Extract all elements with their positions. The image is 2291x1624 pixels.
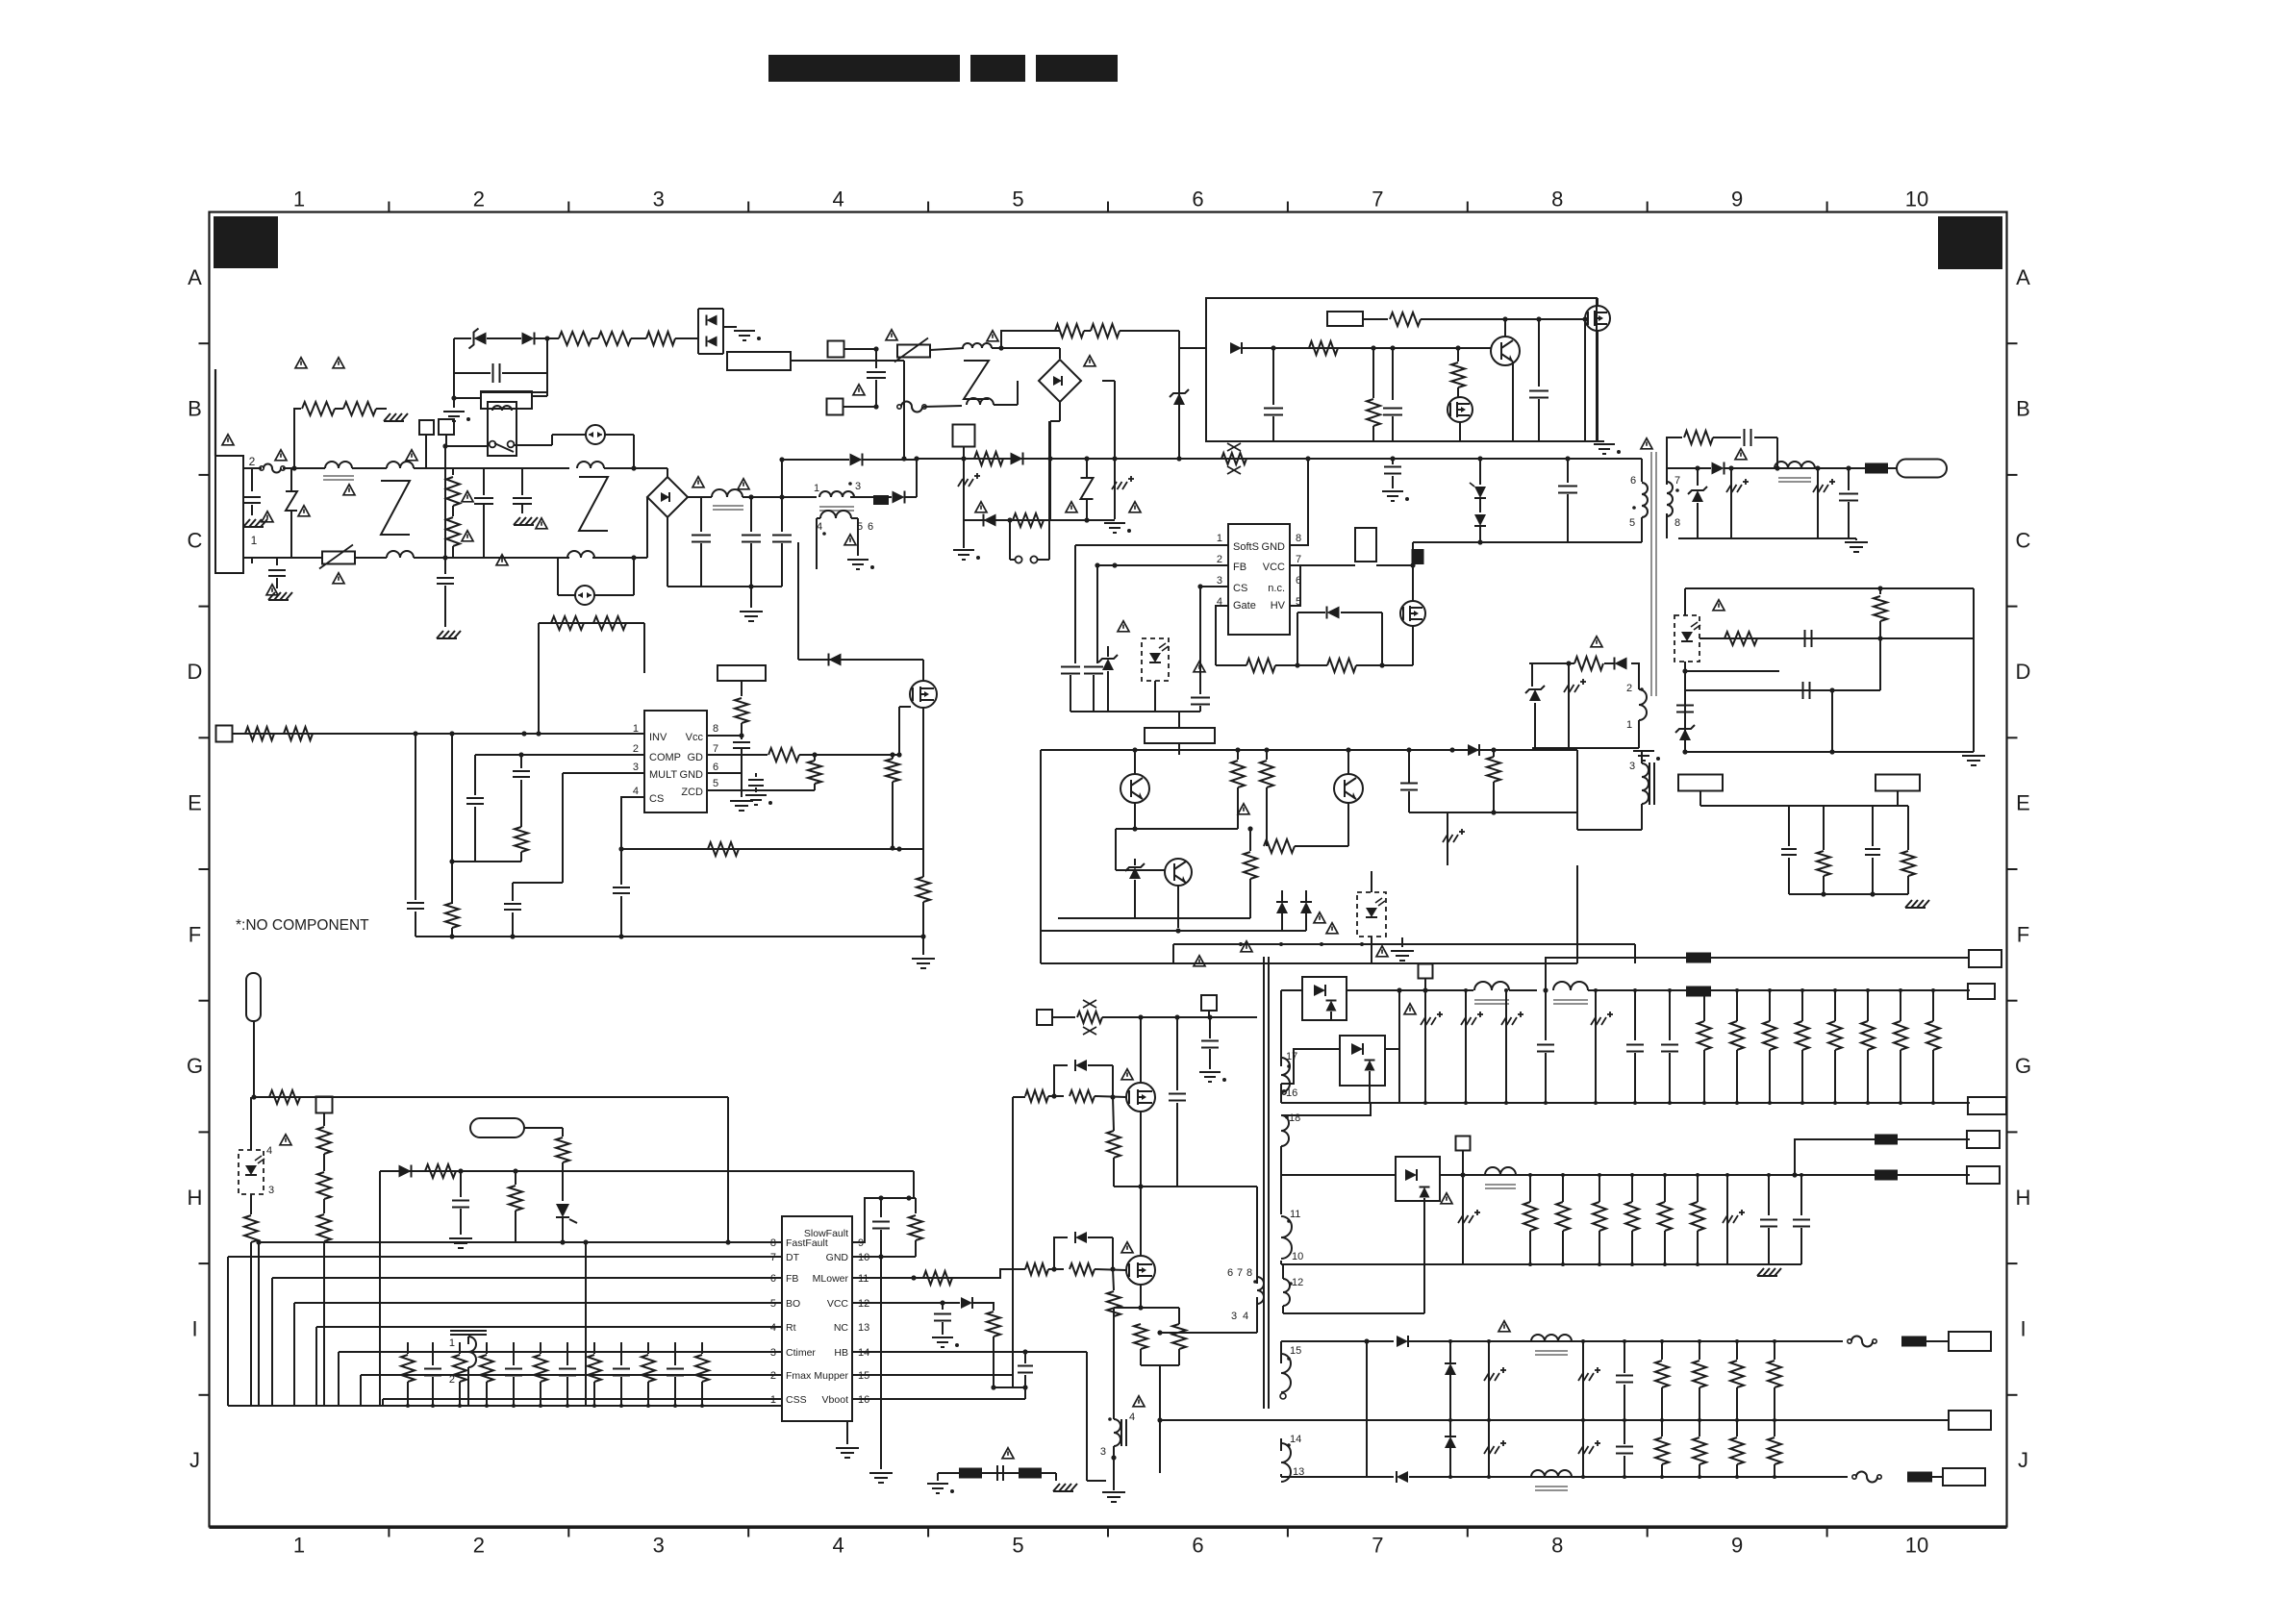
svg-text:5: 5 [1012, 187, 1023, 212]
svg-text:D: D [188, 660, 203, 684]
svg-text:4: 4 [1243, 1311, 1248, 1322]
svg-text:4: 4 [266, 1145, 272, 1157]
svg-text:n.c.: n.c. [1268, 583, 1285, 594]
svg-text:2: 2 [1217, 554, 1222, 565]
svg-text:Fmax: Fmax [786, 1370, 812, 1382]
svg-text:6: 6 [1227, 1267, 1233, 1279]
svg-text:6: 6 [713, 762, 718, 773]
svg-text:3: 3 [1629, 761, 1635, 772]
svg-text:D: D [2016, 660, 2031, 684]
svg-text:8: 8 [1551, 1534, 1563, 1558]
svg-text:7: 7 [1674, 475, 1680, 487]
svg-text:3: 3 [1100, 1446, 1106, 1458]
svg-text:I: I [191, 1316, 197, 1340]
svg-text:2: 2 [473, 187, 485, 212]
svg-text:13: 13 [858, 1322, 869, 1334]
svg-text:7: 7 [1296, 554, 1301, 565]
svg-text:MULT: MULT [649, 769, 677, 781]
svg-text:2: 2 [249, 455, 256, 468]
svg-text:CS: CS [649, 793, 664, 805]
svg-text:6: 6 [1630, 475, 1636, 487]
svg-text:CS: CS [1233, 583, 1247, 594]
svg-text:14: 14 [1290, 1434, 1301, 1445]
svg-text:7: 7 [713, 743, 718, 755]
svg-text:HB: HB [834, 1347, 848, 1359]
svg-text:15: 15 [1290, 1345, 1301, 1357]
svg-text:G: G [2015, 1054, 2031, 1078]
svg-text:1: 1 [1217, 533, 1222, 544]
svg-text:Vboot: Vboot [822, 1394, 849, 1406]
svg-text:GD: GD [688, 752, 704, 763]
svg-text:8: 8 [713, 723, 718, 735]
svg-text:B: B [2016, 397, 2030, 421]
svg-text:7: 7 [1372, 1534, 1383, 1558]
svg-text:E: E [2016, 791, 2030, 815]
svg-text:FastFault: FastFault [786, 1237, 828, 1249]
svg-text:7: 7 [1237, 1267, 1243, 1279]
svg-text:1: 1 [293, 187, 305, 212]
svg-text:F: F [189, 922, 201, 946]
svg-text:6: 6 [868, 521, 873, 533]
svg-text:J: J [189, 1448, 200, 1472]
svg-text:10: 10 [1292, 1251, 1303, 1262]
svg-text:FB: FB [1233, 562, 1246, 573]
svg-text:10: 10 [1905, 187, 1928, 212]
svg-text:COMP: COMP [649, 752, 681, 763]
svg-text:4: 4 [1129, 1412, 1135, 1423]
svg-text:4: 4 [833, 187, 844, 212]
svg-text:H: H [2016, 1186, 2031, 1210]
svg-text:17: 17 [1286, 1051, 1297, 1062]
svg-text:*:NO COMPONENT: *:NO COMPONENT [236, 917, 369, 934]
svg-text:2: 2 [1626, 683, 1632, 694]
svg-text:2: 2 [449, 1374, 455, 1386]
svg-text:A: A [2016, 265, 2030, 289]
svg-text:FB: FB [786, 1273, 798, 1285]
svg-text:Vcc: Vcc [686, 732, 704, 743]
svg-text:9: 9 [1731, 187, 1743, 212]
svg-text:VCC: VCC [1263, 562, 1285, 573]
svg-text:G: G [187, 1054, 203, 1078]
svg-text:GND: GND [680, 769, 704, 781]
svg-text:8: 8 [1246, 1267, 1252, 1279]
svg-text:SoftS: SoftS [1233, 541, 1259, 553]
svg-text:3: 3 [653, 187, 665, 212]
svg-text:4: 4 [833, 1534, 844, 1558]
svg-text:C: C [188, 528, 203, 552]
svg-text:I: I [2020, 1316, 2026, 1340]
svg-text:VCC: VCC [827, 1298, 849, 1310]
svg-text:B: B [188, 397, 202, 421]
svg-text:ZCD: ZCD [681, 787, 703, 798]
svg-text:F: F [2017, 922, 2029, 946]
svg-text:H: H [188, 1186, 203, 1210]
svg-text:6: 6 [1192, 187, 1203, 212]
svg-text:7: 7 [1372, 187, 1383, 212]
svg-text:6: 6 [1192, 1534, 1203, 1558]
svg-text:16: 16 [1286, 1087, 1297, 1099]
svg-text:3: 3 [633, 762, 639, 773]
svg-text:E: E [188, 791, 202, 815]
svg-text:5: 5 [1012, 1534, 1023, 1558]
svg-text:1: 1 [251, 534, 258, 547]
svg-text:9: 9 [1731, 1534, 1743, 1558]
svg-text:BO: BO [786, 1298, 800, 1310]
svg-text:MLower: MLower [813, 1273, 849, 1285]
svg-text:5: 5 [1629, 517, 1635, 529]
svg-text:1: 1 [293, 1534, 305, 1558]
svg-text:1: 1 [814, 483, 819, 494]
svg-text:Gate: Gate [1233, 600, 1256, 612]
svg-text:3: 3 [855, 481, 861, 492]
svg-text:8: 8 [1674, 517, 1680, 529]
svg-text:5: 5 [713, 778, 718, 789]
svg-text:DT: DT [786, 1252, 800, 1263]
svg-text:HV: HV [1271, 600, 1286, 612]
svg-text:INV: INV [649, 732, 667, 743]
svg-text:8: 8 [1296, 533, 1301, 544]
svg-text:Ctimer: Ctimer [786, 1347, 816, 1359]
svg-text:GND: GND [826, 1252, 849, 1263]
svg-text:3: 3 [268, 1185, 274, 1196]
svg-text:Mupper: Mupper [814, 1370, 848, 1382]
svg-text:CSS: CSS [786, 1394, 807, 1406]
svg-text:GND: GND [1262, 541, 1286, 553]
svg-text:8: 8 [1551, 187, 1563, 212]
svg-text:12: 12 [1292, 1277, 1303, 1288]
svg-text:3: 3 [1217, 575, 1222, 587]
svg-text:1: 1 [1626, 719, 1632, 731]
svg-text:3: 3 [653, 1534, 665, 1558]
svg-text:2: 2 [473, 1534, 485, 1558]
svg-text:3: 3 [1231, 1311, 1237, 1322]
svg-text:11: 11 [1290, 1209, 1300, 1220]
svg-text:Rt: Rt [786, 1322, 796, 1334]
svg-text:2: 2 [633, 743, 639, 755]
svg-text:18: 18 [1289, 1112, 1300, 1124]
svg-text:C: C [2016, 528, 2031, 552]
svg-text:10: 10 [1905, 1534, 1928, 1558]
svg-text:J: J [2018, 1448, 2028, 1472]
svg-text:NC: NC [834, 1322, 849, 1334]
svg-text:1: 1 [449, 1337, 455, 1349]
svg-text:4: 4 [633, 786, 639, 797]
svg-text:A: A [188, 265, 202, 289]
